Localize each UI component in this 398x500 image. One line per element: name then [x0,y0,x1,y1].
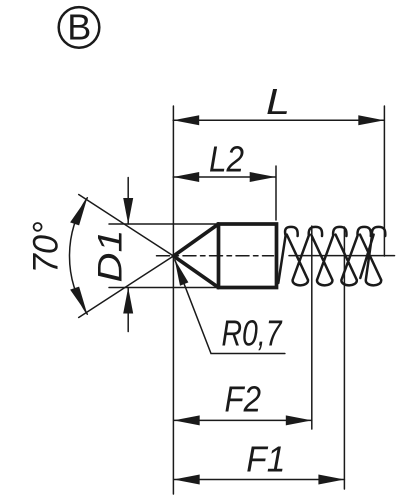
svg-text:70°: 70° [26,221,65,273]
dimension F1 arrow right [318,475,344,485]
D1 dimension stub top [127,178,129,225]
svg-text:L2: L2 [209,139,244,180]
leader R0,7 arrow [175,259,189,285]
spring main coil [278,227,385,285]
leader R0,7 line [175,260,285,354]
D1 extension line top [109,223,218,225]
centerline dashed through body [157,255,274,257]
extension line at tip (left, x=173.4) [172,106,174,494]
angle extension line lower-left [79,256,174,318]
view label circle B [59,7,100,48]
D1 arrow bottom (pointing up) [123,288,133,314]
D1 dimension stub bottom [127,288,129,332]
svg-text:R0,7: R0,7 [222,313,284,354]
angle arc arrow bottom [70,287,87,315]
svg-text:F1: F1 [246,438,285,479]
svg-text:F2: F2 [225,379,262,420]
centerline solid through spring [289,255,395,257]
dimension F2 arrow right [286,415,312,425]
dimension F1 arrow left [174,475,200,485]
dimension F2 arrow left [174,415,200,425]
dimension F1 line [174,479,345,481]
angle arc arrow top [70,198,87,226]
D1 arrow top (pointing down) [123,198,133,224]
D1 extension line bottom [109,287,218,289]
cone tip slant upper (thick) [174,224,219,256]
dimension F2 line [174,419,312,421]
dimension L2 arrow left [173,172,199,182]
svg-text:B: B [67,7,91,48]
extension line F2 right (x=311.8) [311,226,313,429]
extension line body right edge for L2 (x=276) [275,166,277,220]
dimension L arrow right [358,115,384,125]
extension line F1 right (x=344.4) [343,227,345,489]
body rectangle (thick) [219,224,277,288]
extension line right end of spring (x=384.4) [383,106,385,256]
svg-text:L: L [266,81,290,122]
angle extension line upper-left [79,195,174,257]
angle dimension arc 70 deg [69,198,87,314]
dimension L2 line [173,176,276,178]
svg-text:D1: D1 [91,230,129,283]
dimension L2 arrow right [250,172,276,182]
cone tip slant lower (thick) [174,256,219,288]
dimension L line [173,119,384,121]
dimension L arrow left [173,115,199,125]
